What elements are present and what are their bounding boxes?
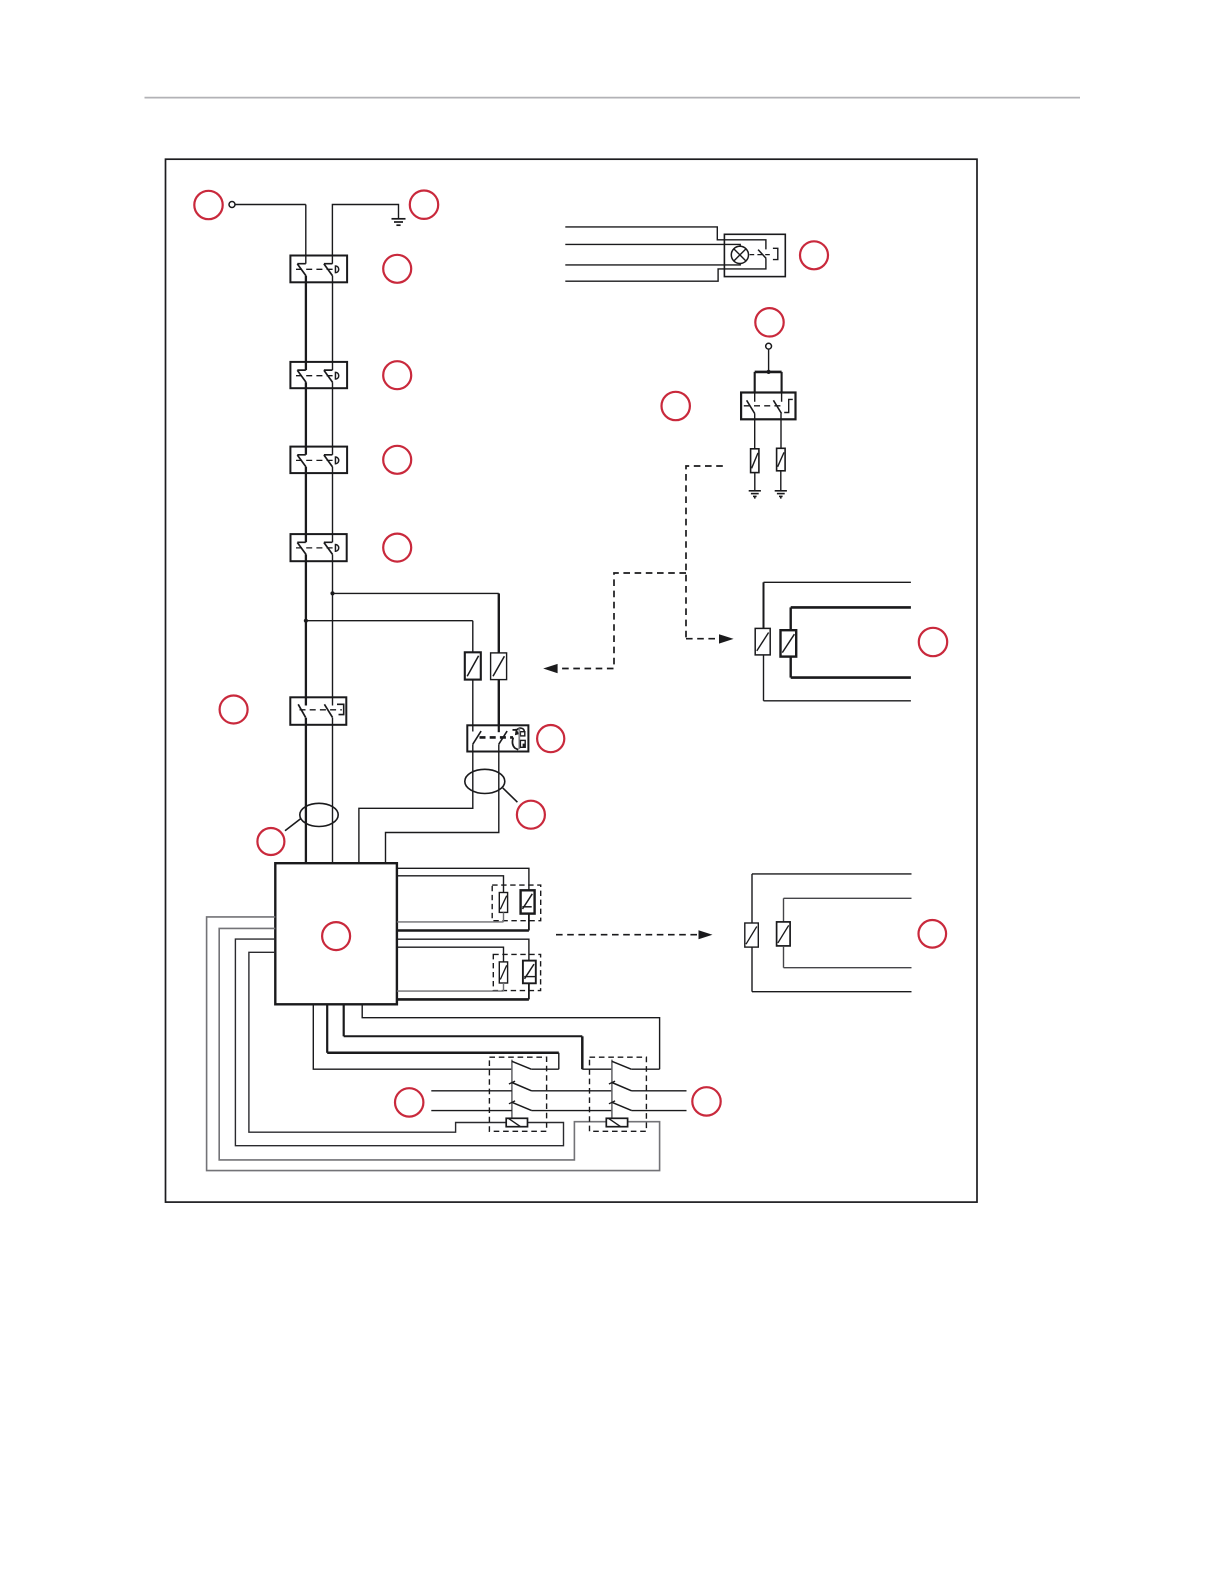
control unit bottom wire W1	[313, 1004, 512, 1069]
wire S1 right pole to ground	[332, 205, 398, 264]
callout 4	[383, 361, 411, 389]
harness loop B	[465, 769, 505, 793]
coil pair 1 dashed outline	[492, 885, 541, 921]
switch S3	[290, 447, 347, 474]
coil pair 2 return wires	[397, 983, 504, 991]
callout 11	[662, 392, 690, 420]
switch S7 terminal	[766, 343, 772, 349]
relay R1 coil 2	[781, 630, 797, 656]
ground (left of S7)	[749, 491, 761, 499]
callout 18	[322, 922, 350, 950]
wire feed to S1 left pole	[235, 204, 306, 206]
header rule	[145, 97, 1081, 99]
fuse F3	[751, 449, 759, 473]
callout 14	[395, 1088, 423, 1116]
dashed pointer from S7 fuses	[686, 466, 723, 639]
callout 17	[517, 801, 545, 829]
control unit box	[275, 863, 397, 1004]
node S7 feed	[767, 370, 771, 374]
callout 6	[383, 534, 411, 562]
wire fuses to ignition switch	[472, 680, 474, 726]
control unit left wire L2	[219, 928, 606, 1160]
branch wire to left fuse	[306, 620, 473, 622]
wire S3 to S4	[305, 467, 307, 542]
relay R2 coil 2	[777, 922, 791, 946]
fuse F2 (right)	[491, 653, 507, 680]
relay block R2	[745, 874, 912, 992]
relay R2 coil 1	[745, 923, 759, 947]
wire S5 to control unit	[305, 718, 307, 864]
switch S1	[290, 256, 347, 283]
wire S4 to S5	[305, 554, 307, 705]
wires S7 to fuses	[755, 414, 781, 449]
callout 16	[257, 828, 284, 855]
selector switch group G1 dashed outline	[489, 1057, 546, 1131]
wires fuses to ground	[755, 471, 781, 491]
callout 15	[692, 1087, 720, 1115]
ground (right of S7)	[775, 491, 787, 499]
G1 contact c	[509, 1101, 515, 1104]
dashed arrow to relay R2	[556, 934, 697, 936]
switch S7 (double pole)	[741, 393, 795, 420]
callout 2	[410, 191, 438, 219]
coil pair 1 return wires	[397, 912, 504, 922]
wire S2 to S3	[305, 382, 307, 455]
relay coil K1a	[499, 893, 507, 913]
arrowhead to fuses	[543, 664, 557, 673]
junction right wire	[330, 591, 334, 595]
G1 fuse	[506, 1118, 527, 1126]
switch S5	[290, 697, 346, 725]
callout 1	[194, 191, 222, 219]
row wires G2 out	[632, 1090, 687, 1092]
selector switch group G2 dashed outline	[590, 1057, 647, 1131]
dashed pointer to fuses F1 F2	[558, 573, 686, 669]
dashed pointer to relay R1	[686, 638, 717, 640]
control unit output wires to coil pair 2	[397, 939, 529, 960]
G2 shaft	[611, 1060, 613, 1119]
ignition switch S6	[467, 725, 528, 751]
wire S1 to S2	[305, 276, 307, 370]
coil pair 2 dashed outline	[493, 954, 540, 990]
relay coil K1b	[521, 890, 535, 913]
lamp unit harness wires	[565, 227, 766, 250]
G1 shaft	[511, 1060, 513, 1119]
control unit bottom wire W3	[343, 1004, 345, 1036]
G2 fuse	[606, 1118, 627, 1126]
callout 13	[919, 920, 947, 948]
arrowhead to relay R1	[719, 634, 734, 643]
fuse F4	[777, 448, 786, 471]
fuse F1 (left)	[465, 652, 481, 679]
row wires into G1	[431, 1090, 512, 1092]
relay coil K2b	[523, 961, 536, 984]
lamp switch contact	[758, 250, 766, 259]
callout 5	[383, 446, 411, 474]
relay coil K2a	[499, 962, 507, 983]
callout 8	[537, 725, 564, 752]
G2 contact a	[612, 1061, 632, 1069]
control unit bottom wire W4	[362, 1004, 659, 1069]
callout 3	[383, 255, 411, 283]
lamp unit box	[724, 234, 785, 276]
control unit left wire L3	[235, 939, 563, 1146]
junction left wire	[304, 619, 308, 623]
row wires G1 to G2	[532, 1090, 612, 1092]
branch wire to right fuse	[333, 592, 499, 594]
control unit left wire L4	[249, 952, 506, 1132]
G2 contact c	[609, 1101, 615, 1104]
ground (top)	[392, 219, 406, 225]
callout 9	[800, 241, 828, 269]
G2 contact b	[609, 1081, 615, 1084]
callout 10	[755, 308, 783, 336]
harness loop A	[300, 803, 338, 826]
border frame	[166, 159, 978, 1202]
wire terminal to S7	[768, 349, 770, 372]
relay R1 coil 1	[755, 628, 770, 655]
relay block R1	[755, 582, 911, 701]
ignition key symbol	[512, 728, 525, 750]
callout 7	[220, 696, 248, 724]
switch S4	[291, 534, 347, 561]
G1 contact a	[512, 1061, 532, 1069]
battery feed terminal	[229, 202, 235, 208]
control unit output wires to coil pair 1	[397, 868, 529, 890]
lamp L1	[731, 246, 748, 263]
control unit bottom wire W2	[326, 1004, 328, 1053]
callout 12	[919, 628, 947, 656]
wire ignition left to control unit	[359, 744, 473, 863]
switch S2	[290, 362, 347, 388]
wire ignition right to control unit	[386, 744, 499, 863]
control unit left wire L1	[207, 917, 660, 1171]
G1 contact b	[509, 1081, 515, 1084]
